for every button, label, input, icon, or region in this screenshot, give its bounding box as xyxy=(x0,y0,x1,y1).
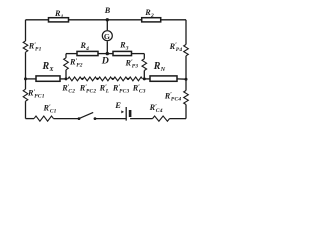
wire rail2 corner to R'P2 xyxy=(65,54,67,58)
wire left rail to RX xyxy=(26,78,37,80)
resistor R'PC2 xyxy=(83,77,97,81)
wire G to D xyxy=(106,41,108,53)
wire B to G xyxy=(106,20,108,30)
node row junction 1 xyxy=(81,78,83,80)
resistor R1 xyxy=(49,18,69,22)
wire left rail middle xyxy=(25,52,27,89)
wire bottom rail segment E xyxy=(170,118,187,120)
battery polarity arrow xyxy=(121,110,124,113)
wire bottom rail segment D xyxy=(130,118,152,120)
svg-text:R′P1: R′P1 xyxy=(28,42,42,53)
wire second rail left segment xyxy=(66,53,77,55)
node row junction 2 xyxy=(96,78,98,80)
wire right rail middle xyxy=(185,56,187,91)
svg-text:R′PC2: R′PC2 xyxy=(79,84,97,95)
resistor R'PC3 xyxy=(114,77,128,81)
svg-text:R′P4: R′P4 xyxy=(169,42,183,53)
svg-text:E: E xyxy=(114,100,121,110)
battery E short plate xyxy=(129,110,132,117)
resistor R'P1 xyxy=(23,41,28,52)
resistor RN xyxy=(150,76,177,81)
svg-text:R3: R3 xyxy=(119,41,129,52)
node row left end xyxy=(65,77,68,80)
node row right end xyxy=(143,77,146,80)
wire right rail lower xyxy=(185,105,187,119)
resistor R'L xyxy=(98,77,112,81)
svg-text:R′P2: R′P2 xyxy=(69,58,83,69)
resistor RX xyxy=(36,76,60,81)
node right-RN junction xyxy=(185,78,188,81)
svg-text:RN: RN xyxy=(153,61,166,73)
resistor R3 xyxy=(113,51,132,55)
resistor R'C4 xyxy=(153,116,170,121)
svg-text:RX: RX xyxy=(42,61,55,73)
resistor R'PC1 xyxy=(23,89,28,101)
wire rail2 corner to R'P3 xyxy=(143,54,145,59)
wire left rail upper xyxy=(25,20,27,41)
wire bottom rail segment B xyxy=(54,118,80,120)
node B xyxy=(106,18,109,21)
svg-text:R′C4: R′C4 xyxy=(149,103,163,114)
node row junction 3 xyxy=(112,78,114,80)
svg-text:R′PC3: R′PC3 xyxy=(112,84,130,95)
node left-RX junction xyxy=(24,77,27,80)
galvanometer G xyxy=(102,31,112,41)
wire R'P2 to row xyxy=(65,70,67,79)
wire row to RN xyxy=(144,78,150,80)
wire bottom rail segment A xyxy=(26,118,35,120)
resistor R'PC4 xyxy=(184,91,189,105)
node row junction 4 xyxy=(127,78,129,80)
wire top rail left segment xyxy=(26,19,49,21)
wire left rail lower xyxy=(25,101,27,118)
svg-text:D: D xyxy=(101,55,109,66)
node D xyxy=(106,52,109,55)
resistor R2 xyxy=(142,18,161,22)
switch S blade xyxy=(79,112,93,118)
svg-text:B: B xyxy=(104,6,111,15)
svg-text:R′C1: R′C1 xyxy=(43,104,57,115)
wire RX to row xyxy=(60,78,66,80)
wire RN to right rail xyxy=(177,78,186,80)
resistor R'P4 xyxy=(184,45,189,56)
wire bottom rail segment C xyxy=(95,118,126,120)
battery E long plate xyxy=(125,107,127,121)
svg-text:R′C2: R′C2 xyxy=(61,84,75,95)
resistor R'P2 xyxy=(64,58,69,70)
svg-text:R′C3: R′C3 xyxy=(132,84,146,95)
wire right rail upper xyxy=(185,20,187,45)
svg-text:R′P3: R′P3 xyxy=(125,59,139,70)
circuit schematic: Kelvin double bridge xyxy=(0,0,204,135)
resistor R'C2 xyxy=(68,77,82,81)
resistor R4 xyxy=(77,51,98,55)
resistor R'C3 xyxy=(129,77,143,81)
wire top rail right segment xyxy=(161,19,186,21)
wire second rail right segment xyxy=(132,53,145,55)
resistor R'P3 xyxy=(142,59,147,71)
resistor R'C1 xyxy=(34,116,54,121)
svg-text:R′PC1: R′PC1 xyxy=(27,89,45,100)
wire top rail middle segment xyxy=(69,19,142,21)
wire second rail mid-left xyxy=(98,53,113,55)
switch S right contact xyxy=(94,117,97,120)
svg-text:R4: R4 xyxy=(80,41,90,52)
wire R'P3 to row xyxy=(143,71,145,79)
svg-text:R′L: R′L xyxy=(99,84,110,95)
switch S left contact xyxy=(78,117,81,120)
svg-text:G: G xyxy=(104,32,110,41)
svg-text:R′PC4: R′PC4 xyxy=(164,91,182,102)
